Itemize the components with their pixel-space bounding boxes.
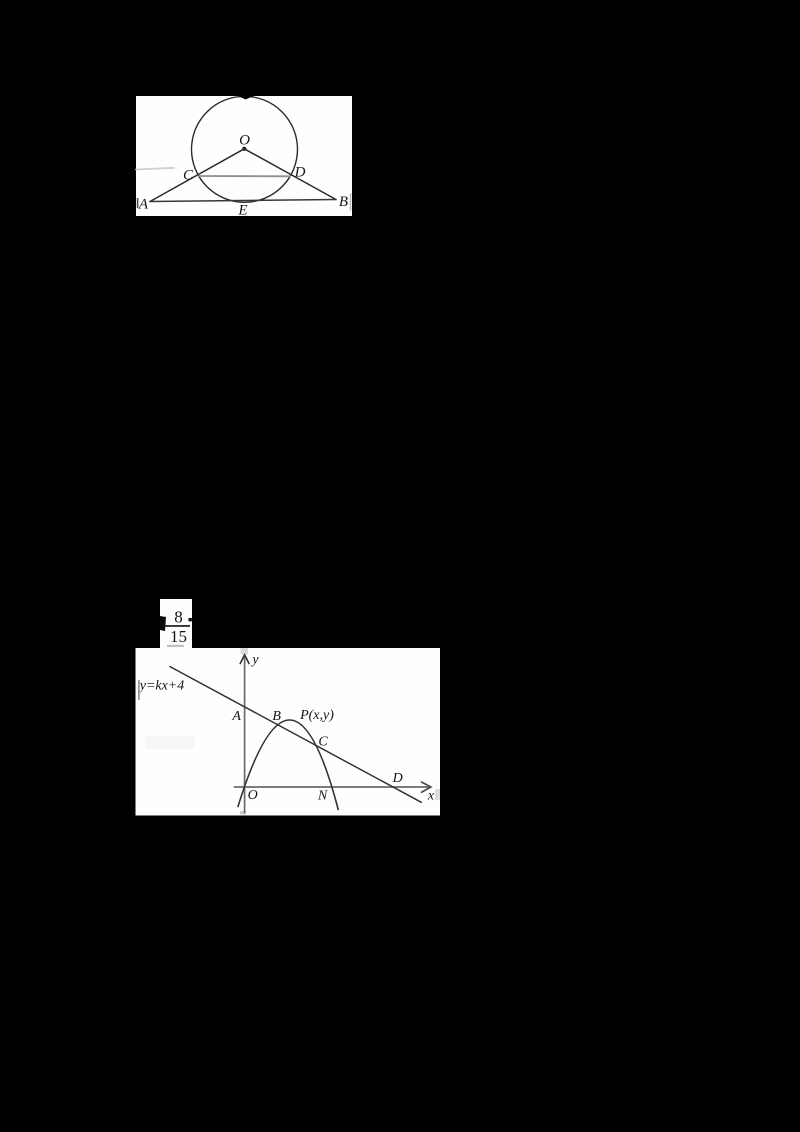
- gray mark bottom of y axis: [240, 811, 246, 815]
- gray mark right of x label: [435, 789, 440, 800]
- svg-text:C: C: [318, 735, 328, 750]
- gray underline below 15: [167, 645, 184, 647]
- gray tick right of B: [350, 194, 352, 210]
- svg-text:B: B: [272, 709, 281, 724]
- svg-text:B: B: [339, 194, 348, 210]
- parabola: [238, 720, 338, 810]
- fraction bar: [161, 625, 190, 627]
- x axis arrowhead: [422, 782, 431, 792]
- svg-text:y=kx+4: y=kx+4: [138, 679, 185, 694]
- segment O to A: [150, 149, 244, 202]
- svg-text:A: A: [231, 709, 241, 724]
- svg-text:E: E: [237, 203, 247, 219]
- faint smudge left area: [145, 736, 195, 749]
- svg-text:x: x: [427, 789, 435, 804]
- svg-text:O: O: [248, 788, 258, 803]
- svg-text:P(x,y): P(x,y): [299, 708, 334, 723]
- y axis: [244, 656, 246, 813]
- circle O: [192, 96, 298, 202]
- faint streak left of C: [136, 168, 174, 170]
- svg-text:D: D: [392, 771, 403, 786]
- svg-text:15: 15: [170, 627, 187, 646]
- black speck right of fraction: [189, 618, 192, 621]
- tick left of label A: [137, 198, 139, 208]
- svg-text:C: C: [183, 168, 194, 184]
- figure 2 white panel: [136, 648, 441, 816]
- center dot O: [242, 147, 246, 151]
- fraction white panel: [160, 599, 192, 648]
- x axis: [235, 786, 429, 788]
- black blob left of fraction: [160, 616, 166, 631]
- black notch above circle top: [237, 96, 255, 100]
- line y=kx+4: [170, 667, 421, 803]
- figure 1 white panel: [136, 96, 352, 216]
- svg-text:8: 8: [174, 608, 183, 627]
- svg-text:D: D: [294, 165, 306, 181]
- chord C D: [199, 175, 290, 177]
- y axis arrowhead: [240, 655, 249, 664]
- tangent line A B: [150, 200, 336, 202]
- svg-text:A: A: [138, 197, 149, 213]
- svg-text:O: O: [239, 133, 250, 149]
- gray mark at panel top above y axis: [241, 648, 249, 655]
- svg-text:N: N: [317, 788, 328, 803]
- tick left of label y=kx+4: [138, 680, 140, 700]
- svg-text:y: y: [250, 653, 259, 668]
- segment O to B: [244, 149, 336, 200]
